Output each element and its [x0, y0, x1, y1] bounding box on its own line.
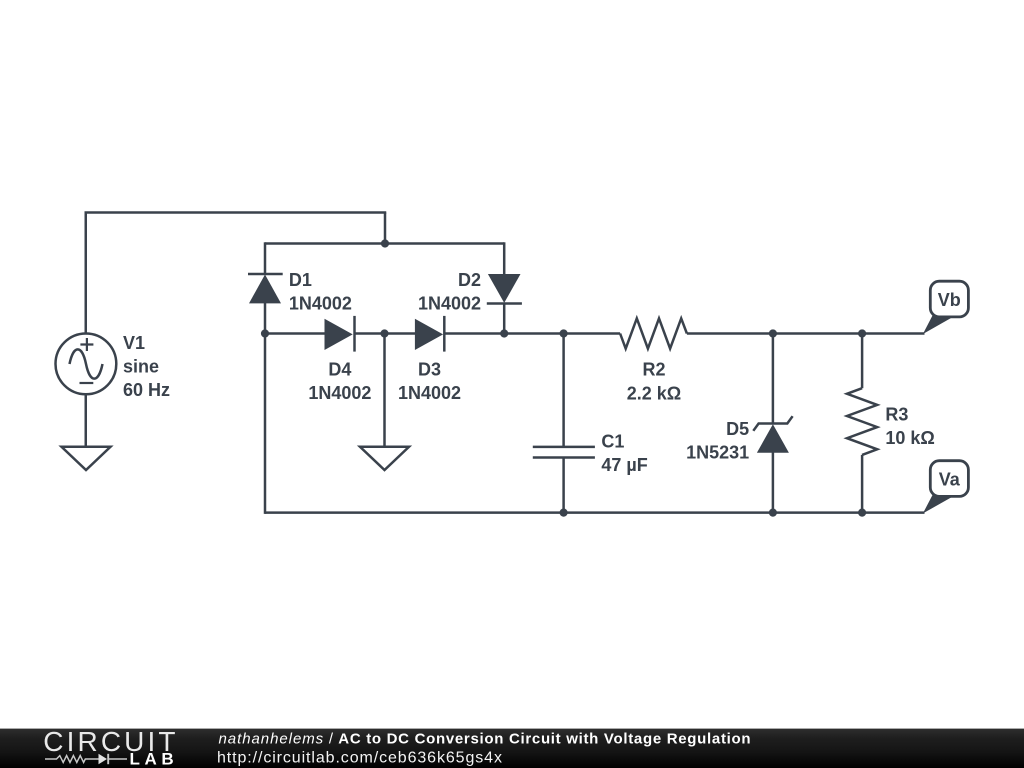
junction dot middle rail D2 — [500, 329, 508, 337]
wire left drop to bottom rail — [264, 334, 267, 514]
svg-text:1N4002: 1N4002 — [418, 293, 481, 313]
svg-text:2.2 kΩ: 2.2 kΩ — [627, 384, 681, 404]
svg-text:1N4002: 1N4002 — [398, 383, 461, 403]
ground symbol under V1 — [62, 447, 111, 470]
wire middle rail D3 to R2 — [444, 332, 620, 335]
svg-text:R2: R2 — [642, 360, 665, 380]
flag Va box — [930, 461, 968, 497]
zener diode D5 triangle — [757, 424, 789, 453]
CircuitLab logo squiggle resistor — [45, 756, 99, 763]
diode D4 cathode bar — [353, 316, 356, 352]
svg-text:60 Hz: 60 Hz — [123, 380, 170, 400]
capacitor C1 bottom lead — [562, 458, 565, 514]
svg-text:V1: V1 — [123, 333, 145, 353]
diode D4 triangle — [325, 319, 353, 350]
wire middle rail D4 to D3 — [355, 332, 416, 335]
wire D1 cathode to top rail — [264, 242, 267, 274]
junction dot middle rail center — [380, 329, 388, 337]
capacitor C1 top lead — [562, 332, 565, 447]
zener diode D5 top lead — [772, 332, 775, 423]
wire middle rail segment left of D4 — [265, 332, 326, 335]
junction dot bottom rail R3 — [858, 508, 866, 516]
svg-text:D5: D5 — [726, 419, 749, 439]
diode D3 triangle — [415, 319, 443, 350]
wire D2 top — [503, 242, 506, 274]
V1 sine waveform — [70, 349, 103, 378]
svg-text:C1: C1 — [601, 431, 624, 451]
junction dot middle rail R3 — [858, 329, 866, 337]
svg-text:Va: Va — [939, 470, 961, 490]
svg-text:47 µF: 47 µF — [601, 455, 647, 475]
resistor R2 zigzag — [620, 318, 687, 348]
voltage source V1 circle — [56, 334, 117, 395]
svg-text:Vb: Vb — [938, 290, 961, 310]
capacitor C1 plates — [533, 447, 595, 458]
svg-text:1N4002: 1N4002 — [308, 383, 371, 403]
svg-text:10 kΩ: 10 kΩ — [885, 428, 934, 448]
V1 plus sign — [80, 338, 93, 351]
junction dot bottom rail C1 — [560, 508, 568, 516]
wire down into top rail junction — [384, 213, 387, 244]
svg-text:D4: D4 — [328, 359, 351, 379]
wire top horizontal — [85, 211, 387, 214]
resistor R3 zigzag — [847, 388, 877, 455]
svg-text:1N4002: 1N4002 — [289, 293, 352, 313]
svg-text:http://circuitlab.com/ceb636k6: http://circuitlab.com/ceb636k65gs4x — [217, 750, 503, 767]
svg-text:D1: D1 — [289, 270, 312, 290]
svg-text:D2: D2 — [458, 270, 481, 290]
junction dot middle rail D5 — [769, 329, 777, 337]
wire top rail D1 to D2 — [265, 242, 504, 245]
wire middle rail R2 to Vb — [687, 332, 925, 335]
zener diode D5 bottom lead — [772, 452, 775, 514]
wire from V1 plus terminal up — [85, 213, 88, 334]
resistor R3 bottom lead — [861, 455, 864, 514]
wire V1 minus terminal to ground — [85, 394, 88, 446]
flag Vb pointer — [923, 316, 952, 335]
ground symbol under bridge — [360, 447, 409, 470]
svg-text:1N5231: 1N5231 — [686, 442, 749, 462]
svg-text:LAB: LAB — [130, 750, 179, 768]
junction dot middle rail C1 — [560, 329, 568, 337]
wire D2 cathode to middle rail — [503, 303, 506, 334]
junction dot middle rail left — [261, 329, 269, 337]
flag Vb box — [930, 281, 968, 317]
svg-text:R3: R3 — [885, 404, 908, 424]
flag Va pointer — [923, 495, 952, 513]
footer bar — [0, 728, 1024, 768]
resistor R3 top lead — [861, 332, 864, 388]
junction dot top rail — [381, 239, 389, 247]
diode D1 cathode bar — [248, 273, 283, 276]
diode D3 cathode bar — [443, 316, 446, 352]
svg-text:sine: sine — [123, 357, 159, 377]
zener diode D5 cathode bar with bent tails — [753, 416, 792, 431]
wire center junction to ground — [383, 334, 386, 447]
svg-text:nathanhelems / AC to DC Conver: nathanhelems / AC to DC Conversion Circu… — [219, 731, 752, 748]
diode D1 triangle — [249, 275, 281, 304]
CircuitLab logo squiggle diode — [99, 754, 108, 765]
wire bottom rail — [265, 511, 925, 514]
junction dot bottom rail D5 — [769, 508, 777, 516]
wire D1 anode to middle rail — [264, 303, 267, 334]
diode D2 triangle — [488, 274, 521, 303]
svg-text:D3: D3 — [418, 359, 441, 379]
diode D2 cathode bar — [487, 302, 522, 305]
V1 minus sign — [80, 382, 94, 384]
